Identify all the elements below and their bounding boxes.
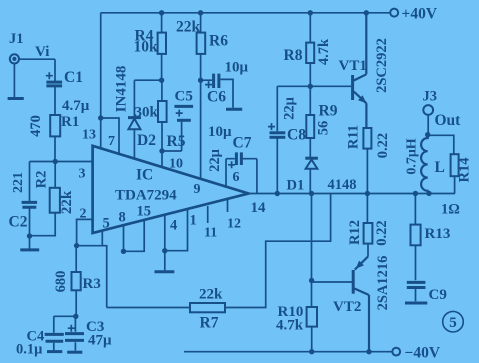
svg-text:30k: 30k [135,105,159,121]
svg-text:R8: R8 [284,47,303,64]
svg-text:3: 3 [79,167,86,182]
svg-text:IN4148: IN4148 [114,66,130,113]
svg-text:56: 56 [316,121,332,136]
svg-text:15: 15 [137,204,152,220]
svg-text:VT1: VT1 [339,58,367,74]
svg-text:C9: C9 [429,287,447,303]
svg-text:13: 13 [82,128,96,143]
svg-text:5: 5 [449,315,457,331]
svg-text:2: 2 [80,207,87,222]
svg-text:4148: 4148 [328,177,357,193]
svg-text:2SA1216: 2SA1216 [375,256,391,311]
svg-text:22k: 22k [59,190,75,214]
svg-text:C1: C1 [64,69,83,86]
svg-text:R2: R2 [34,171,50,189]
svg-text:22μ: 22μ [207,148,223,172]
svg-text:1: 1 [190,213,197,229]
svg-text:C6: C6 [207,89,226,106]
svg-text:−40V: −40V [405,345,441,362]
svg-text:J3: J3 [423,89,438,105]
svg-text:47μ: 47μ [88,333,112,349]
svg-text:9: 9 [194,182,201,197]
svg-text:680: 680 [53,271,69,293]
svg-text:VT2: VT2 [333,299,361,315]
svg-text:0.22: 0.22 [375,133,391,158]
svg-text:1Ω: 1Ω [441,202,460,218]
svg-text:R9: R9 [319,103,338,120]
svg-text:4.7μ: 4.7μ [62,98,90,114]
svg-text:4.7k: 4.7k [316,38,332,65]
svg-text:C5: C5 [175,89,193,105]
svg-text:7: 7 [108,134,115,149]
svg-text:+40V: +40V [402,6,438,23]
svg-text:R5: R5 [167,133,186,150]
svg-text:R7: R7 [200,315,219,332]
svg-text:R12: R12 [347,220,363,245]
svg-text:C7: C7 [233,135,252,152]
svg-text:L: L [435,159,445,176]
svg-text:22μ: 22μ [282,96,298,120]
svg-text:470: 470 [28,115,44,137]
svg-text:6: 6 [233,170,240,185]
svg-text:0.1μ: 0.1μ [16,342,43,358]
svg-text:11: 11 [204,226,217,241]
svg-text:22k: 22k [199,287,223,303]
svg-text:IC: IC [136,167,153,184]
svg-text:10μ: 10μ [208,124,232,140]
svg-text:C8: C8 [287,127,306,144]
svg-text:8: 8 [119,210,126,226]
svg-text:D1: D1 [287,178,305,194]
svg-text:5: 5 [103,216,110,232]
svg-text:10μ: 10μ [225,60,249,76]
svg-text:4.7k: 4.7k [276,318,304,334]
svg-text:R1: R1 [61,114,79,130]
svg-text:2SC2922: 2SC2922 [374,38,390,93]
svg-text:10: 10 [169,157,183,172]
svg-text:10k: 10k [134,39,159,56]
svg-text:4: 4 [170,218,177,234]
svg-text:0.22: 0.22 [374,220,390,245]
svg-text:R14: R14 [456,158,472,183]
svg-text:R3: R3 [83,276,101,292]
svg-text:Out: Out [435,112,462,129]
svg-text:D2: D2 [137,132,156,149]
svg-text:R13: R13 [425,226,451,242]
svg-text:Vi: Vi [35,44,49,60]
svg-text:14: 14 [251,200,267,216]
svg-text:C2: C2 [9,214,28,231]
svg-text:22k: 22k [176,19,201,36]
svg-text:TDA7294: TDA7294 [115,188,177,204]
svg-text:12: 12 [227,217,241,232]
svg-text:R6: R6 [209,33,228,50]
svg-text:221: 221 [11,172,26,193]
svg-text:R11: R11 [346,125,362,149]
svg-text:J1: J1 [9,31,24,47]
svg-text:0.7μH: 0.7μH [405,138,420,174]
